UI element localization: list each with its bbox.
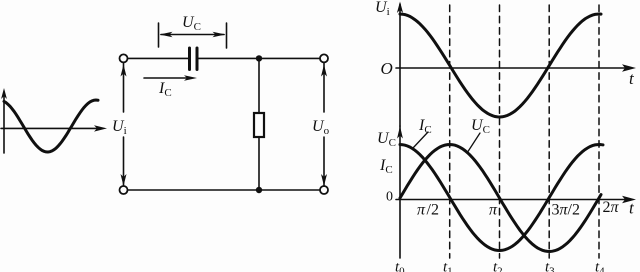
svg-text:π/2: π/2 [417, 202, 439, 219]
U_C dimension extension bar right [226, 23, 228, 48]
left branch wire lower [123, 137, 125, 186]
capacitor C right plate [196, 48, 199, 70]
dashed timing line t2 [499, 5, 501, 258]
U_i waveform curve [400, 14, 601, 117]
input waveform vertical axis arrowhead [1, 88, 7, 99]
terminal bottom-right [320, 186, 328, 194]
upper plot t-axis arrowhead [622, 64, 636, 71]
upper plot vertical axis arrowhead [397, 2, 403, 14]
input waveform horizontal axis arrowhead [94, 125, 107, 131]
svg-text:π: π [489, 202, 498, 219]
capacitor C left plate [188, 48, 191, 70]
svg-text:t4: t4 [595, 260, 605, 272]
left branch arrowhead down [121, 174, 127, 186]
svg-text:IC: IC [379, 157, 393, 176]
upper plot horizontal axis (t) [396, 67, 628, 69]
U_C dimension arrowhead right [213, 32, 226, 38]
I_C waveform curve [400, 145, 603, 251]
svg-text:Uo: Uo [312, 118, 330, 137]
svg-text:Ui: Ui [112, 118, 127, 137]
svg-text:t: t [629, 199, 635, 218]
lower plot vertical axis [399, 126, 401, 258]
input sine curve [4, 100, 98, 152]
terminal bottom-left [120, 186, 128, 194]
svg-text:IC: IC [158, 80, 172, 99]
right branch wire lower [323, 137, 325, 186]
wire capacitor to top-right terminal [199, 57, 321, 59]
svg-text:t: t [629, 69, 635, 88]
svg-text:t0: t0 [395, 260, 405, 272]
svg-text:t2: t2 [493, 260, 503, 272]
dashed timing line t3 [548, 5, 550, 258]
input waveform horizontal axis [1, 127, 99, 129]
right branch arrowhead down [321, 174, 327, 186]
resistor R body [254, 113, 264, 137]
right branch wire upper [323, 63, 325, 113]
right branch arrowhead up [321, 65, 327, 77]
I_C current arrow line [144, 77, 190, 79]
U_C dimension extension bar left [158, 23, 160, 47]
U_C dimension double arrow line [161, 34, 224, 36]
wire top junction to resistor [258, 58, 260, 113]
dashed timing line t4 [598, 5, 600, 258]
svg-text:UC: UC [377, 130, 396, 149]
upper plot vertical axis [399, 4, 401, 126]
lower plot horizontal axis (t) [396, 199, 628, 201]
wire top-left terminal to capacitor [128, 57, 189, 59]
bottom wire [128, 189, 321, 191]
svg-text:t3: t3 [545, 260, 555, 272]
left branch wire upper [123, 63, 125, 113]
svg-text:0: 0 [386, 190, 393, 205]
svg-text:2π: 2π [603, 199, 620, 216]
left branch arrowhead up [121, 65, 127, 77]
wire resistor to bottom junction [258, 137, 260, 190]
node junction bottom [256, 187, 262, 193]
svg-text:O: O [381, 59, 393, 78]
terminal top-right [320, 54, 328, 62]
I_C curve label leader [413, 132, 428, 148]
lower plot t-axis arrowhead [622, 196, 636, 203]
U_C curve label leader [467, 133, 480, 153]
I_C current arrowhead [184, 75, 197, 81]
lower plot vertical axis arrowhead [397, 126, 403, 139]
terminal top-left [120, 54, 128, 62]
svg-text:UC: UC [471, 117, 490, 136]
svg-text:UC: UC [182, 14, 201, 33]
input waveform vertical axis [3, 93, 5, 153]
U_C dimension arrowhead left [160, 32, 173, 38]
svg-text:IC: IC [418, 117, 432, 136]
U_C waveform curve [400, 145, 601, 252]
svg-text:t1: t1 [443, 260, 453, 272]
dashed timing line t1 [449, 5, 451, 258]
node junction top [256, 55, 262, 61]
svg-text:Ui: Ui [375, 0, 390, 18]
svg-text:3π/2: 3π/2 [552, 202, 580, 219]
